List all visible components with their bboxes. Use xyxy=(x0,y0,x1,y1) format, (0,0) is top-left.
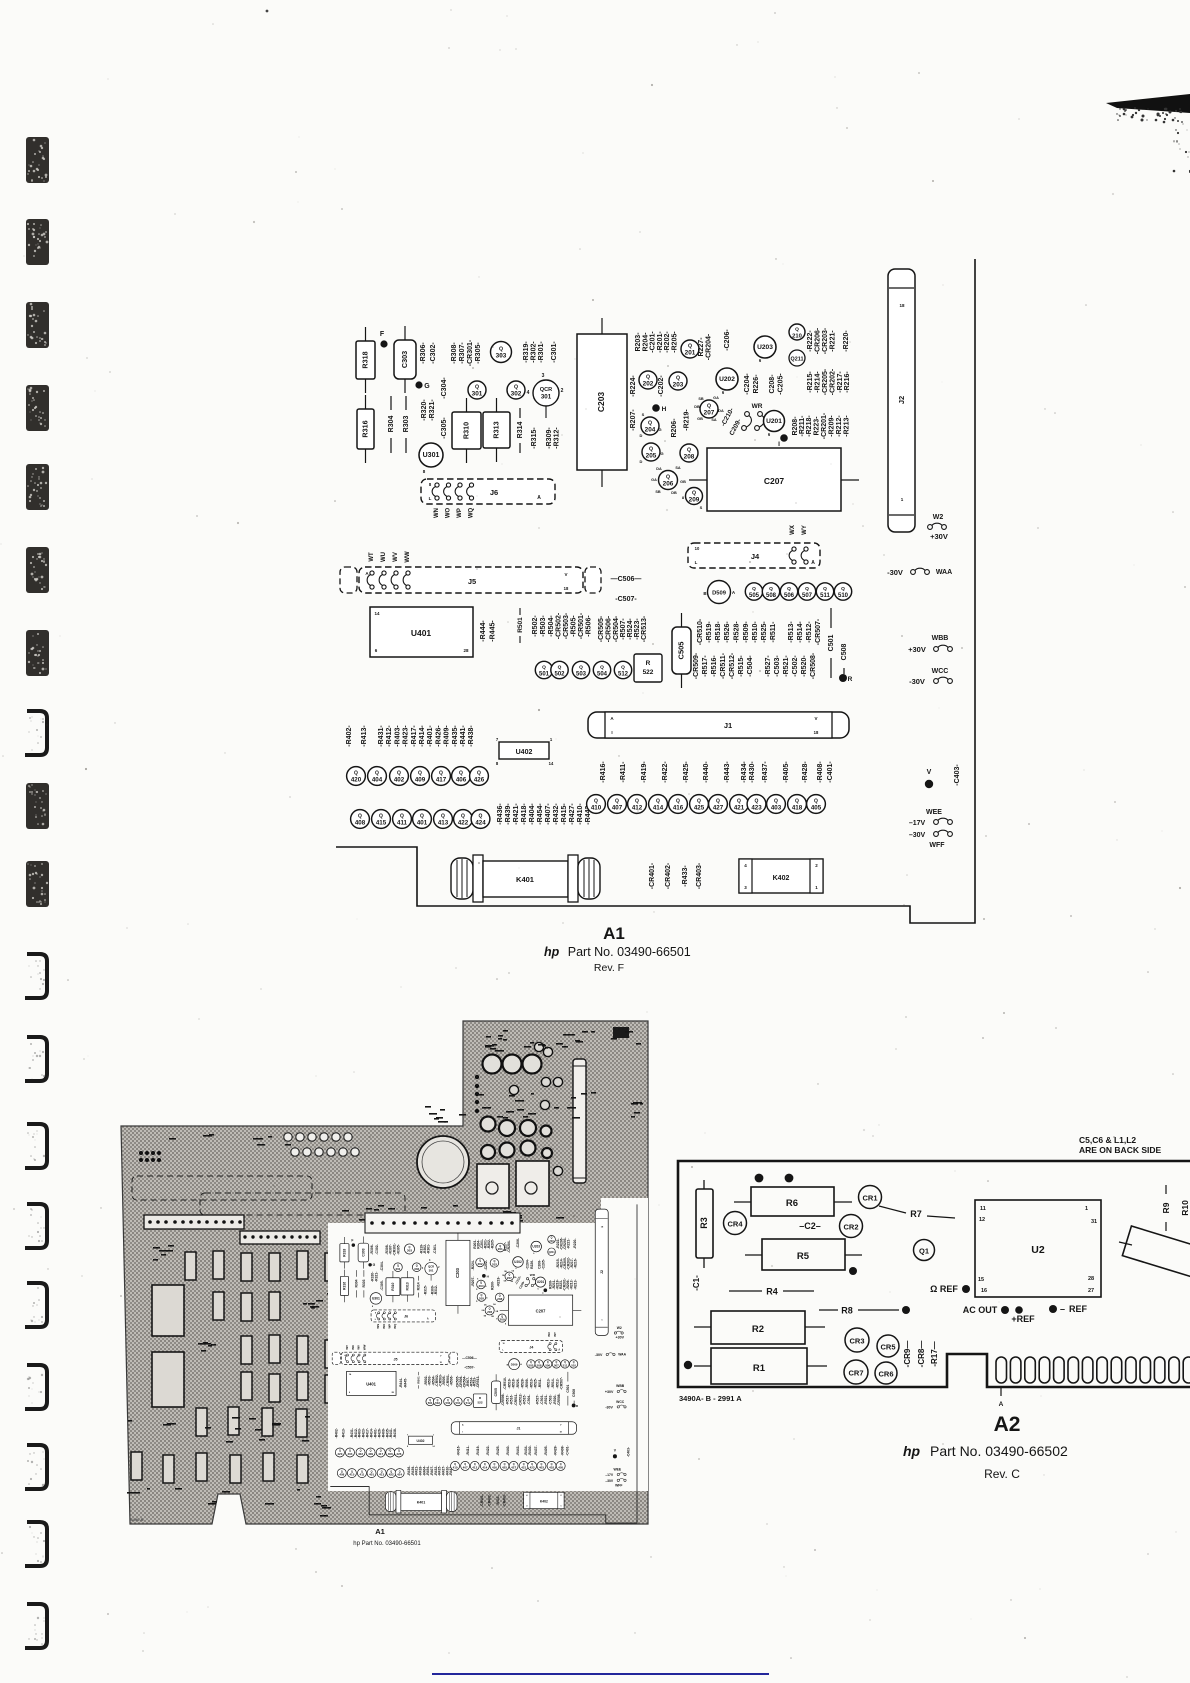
svg-text:3490-B: 3490-B xyxy=(130,1517,143,1522)
svg-text:CR4: CR4 xyxy=(727,1220,743,1229)
svg-text:Rev. F: Rev. F xyxy=(594,962,624,974)
resistor R1 xyxy=(694,1365,711,1367)
svg-text:R10: R10 xyxy=(1180,1200,1190,1216)
svg-text:R1: R1 xyxy=(753,1363,766,1374)
photo dip strip 1 xyxy=(144,1215,244,1229)
photo silkscreen window xyxy=(328,1198,648,1491)
photo relay squares xyxy=(477,1164,509,1208)
-REF test point xyxy=(1049,1305,1057,1313)
svg-text:REF: REF xyxy=(1069,1304,1088,1314)
scan artifact top right xyxy=(1106,94,1190,113)
svg-text:R7: R7 xyxy=(910,1209,922,1219)
dot left of R1 xyxy=(684,1361,692,1369)
diode CR6 xyxy=(875,1362,897,1384)
svg-text:28: 28 xyxy=(1088,1276,1094,1282)
photo big ic 1 xyxy=(152,1285,184,1336)
svg-text:+REF: +REF xyxy=(1011,1314,1035,1324)
photo connector strips xyxy=(132,1176,405,1215)
svg-text:A: A xyxy=(999,1401,1004,1408)
svg-text:hp Part No. 03490-66502: hp Part No. 03490-66502 xyxy=(903,1443,1068,1459)
photo big ic 2 xyxy=(152,1352,184,1407)
svg-text:12: 12 xyxy=(979,1217,985,1223)
resistor R8 label xyxy=(819,1309,838,1311)
svg-text:R2: R2 xyxy=(752,1324,764,1335)
diode CR1 xyxy=(859,1186,882,1209)
photo dip strip 2 xyxy=(240,1231,320,1244)
svg-text:R9: R9 xyxy=(1161,1202,1171,1213)
resistor R7 with leader xyxy=(879,1206,906,1213)
bottom blue rule xyxy=(432,1673,769,1675)
diode CR3 xyxy=(845,1328,869,1352)
svg-text:Q1: Q1 xyxy=(919,1247,929,1256)
svg-text:CR6: CR6 xyxy=(878,1370,893,1379)
svg-text:CR2: CR2 xyxy=(843,1223,858,1232)
diode CR2 xyxy=(840,1215,863,1238)
diode CR7 xyxy=(844,1360,868,1384)
resistor R2 xyxy=(694,1326,711,1328)
svg-text:-CR9—: -CR9— xyxy=(903,1341,912,1368)
svg-text:-CR8—: -CR8— xyxy=(917,1341,926,1368)
svg-text:hp Part No. 03490-66501: hp Part No. 03490-66501 xyxy=(353,1541,421,1547)
A2 board outline xyxy=(678,1161,1190,1387)
A2 component locator diagram xyxy=(678,1135,1190,1481)
svg-text:CR7: CR7 xyxy=(848,1369,863,1378)
svg-text:11: 11 xyxy=(980,1206,986,1212)
svg-text:Rev. C: Rev. C xyxy=(984,1467,1020,1481)
svg-text:CR3: CR3 xyxy=(849,1337,864,1346)
resistor R3 xyxy=(703,1180,705,1189)
edge connector fingers xyxy=(996,1357,1190,1383)
svg-text:R8: R8 xyxy=(841,1306,853,1316)
svg-text:AC OUT: AC OUT xyxy=(963,1305,998,1315)
svg-text:16: 16 xyxy=(981,1288,987,1294)
resistor R4 label xyxy=(729,1290,762,1292)
svg-text:hp Part No. 03490-66501: hp Part No. 03490-66501 xyxy=(544,945,691,959)
svg-text:-C1-: -C1- xyxy=(692,1275,701,1291)
diode CR5 xyxy=(877,1335,899,1357)
label R9 xyxy=(1165,1185,1167,1194)
photo electrolytic can xyxy=(417,1136,469,1188)
svg-text:Ω REF: Ω REF xyxy=(930,1284,958,1294)
svg-text:R5: R5 xyxy=(797,1251,810,1262)
resistor R5 xyxy=(745,1254,762,1256)
photo capacitor rings xyxy=(483,1055,502,1074)
svg-text:A2: A2 xyxy=(994,1413,1021,1436)
svg-text:R4: R4 xyxy=(766,1287,778,1297)
svg-text:ARE ON BACK SIDE: ARE ON BACK SIDE xyxy=(1079,1145,1162,1155)
svg-text:27: 27 xyxy=(1088,1288,1094,1294)
transistor Q1 xyxy=(914,1240,935,1261)
svg-text:U2: U2 xyxy=(1031,1244,1045,1256)
tilted resistor L1 xyxy=(1119,1242,1132,1245)
svg-text:A1: A1 xyxy=(375,1527,385,1536)
photo dark component xyxy=(613,1027,629,1038)
photograph of A1 board xyxy=(121,1021,648,1547)
svg-text:3490A- B - 2991 A: 3490A- B - 2991 A xyxy=(679,1394,742,1403)
svg-text:-R17—: -R17— xyxy=(930,1341,939,1366)
resistor R6 xyxy=(734,1201,751,1203)
svg-text:CR5: CR5 xyxy=(880,1343,895,1352)
svg-text:15: 15 xyxy=(978,1277,984,1283)
svg-text:–: – xyxy=(1060,1304,1065,1314)
IC U2 xyxy=(975,1200,1101,1297)
photo dot cluster xyxy=(139,1151,143,1155)
+REF test point xyxy=(1015,1306,1023,1314)
diode CR4 xyxy=(724,1212,747,1235)
svg-text:–C2–: –C2– xyxy=(799,1221,821,1231)
svg-text:C5,C6 & L1,L2: C5,C6 & L1,L2 xyxy=(1079,1135,1136,1145)
svg-text:R3: R3 xyxy=(699,1217,709,1229)
svg-text:CR1: CR1 xyxy=(862,1194,877,1203)
svg-text:R6: R6 xyxy=(786,1198,798,1209)
miniature A1 drawing xyxy=(330,1204,637,1523)
mounting dots above R6 xyxy=(755,1174,764,1183)
photo ic grid xyxy=(185,1252,196,1280)
svg-text:31: 31 xyxy=(1091,1219,1097,1225)
svg-text:1: 1 xyxy=(1085,1206,1088,1212)
svg-text:A1: A1 xyxy=(603,924,625,943)
dot near R5 xyxy=(849,1267,857,1275)
A1 component locator diagram xyxy=(336,259,975,923)
binder holes left edge xyxy=(25,137,49,1648)
photo dot column xyxy=(475,1075,479,1079)
photo J2 strip xyxy=(573,1059,586,1183)
photo text speckle xyxy=(127,1030,643,1517)
